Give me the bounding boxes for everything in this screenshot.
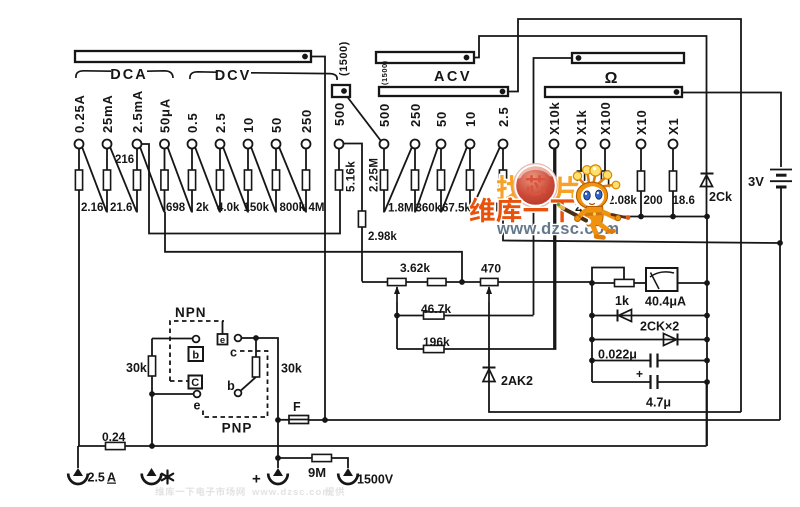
svg-text:2k: 2k: [196, 202, 209, 214]
svg-text:9M: 9M: [308, 465, 326, 480]
wire R 1.8M lower lead: [414, 190, 416, 213]
wire diagonal DCA 50uA to R 2k bottom: [168, 147, 192, 211]
svg-text:10: 10: [241, 117, 256, 133]
terminal 1500V: [343, 468, 353, 476]
switch contact ohm X100: [601, 140, 610, 149]
svg-text:196k: 196k: [423, 335, 450, 349]
svg-text:2Ck: 2Ck: [709, 190, 732, 204]
wire ohm upper bar left down to 46.7k row: [534, 58, 573, 315]
switch contact DCV 250: [302, 140, 311, 149]
svg-text:25mA: 25mA: [100, 94, 115, 133]
capacitor 4.7u electrolytic: [592, 381, 650, 383]
wire ACV 500 contact to resistor: [383, 148, 385, 170]
svg-text:500: 500: [377, 103, 392, 127]
label *: [162, 471, 173, 484]
svg-text:2AK2: 2AK2: [501, 374, 533, 388]
svg-text:Ω: Ω: [605, 70, 618, 87]
svg-text:ACV: ACV: [434, 69, 472, 85]
svg-text:470: 470: [481, 262, 501, 276]
wire meter row left junction: [589, 280, 595, 286]
switch contact DCV 500: [335, 140, 344, 149]
switch contact DCA 50uA: [160, 140, 169, 149]
wire + terminal riser: [277, 420, 279, 468]
wire ACV 10 contact to resistor: [469, 148, 471, 170]
DCV section bracket: [190, 72, 216, 79]
svg-text:3V: 3V: [748, 174, 764, 189]
wire diagonal DCA 25mA to R 216 bottom: [110, 147, 136, 211]
wire R 200 to ohm bus: [640, 191, 642, 217]
wire diagonal DCV 10 to R 800k bottom: [251, 147, 275, 211]
wire R 150k lower lead: [247, 190, 249, 213]
resistor R 21.6: [103, 170, 110, 190]
wire ACV 250 contact to resistor: [414, 148, 416, 170]
resistor R3.62k b: [428, 278, 447, 285]
wire PNP e node to fuse row: [256, 338, 278, 420]
wire contact DCA 25mA to resistor: [106, 148, 108, 170]
svg-text:PNP: PNP: [222, 421, 253, 436]
NPN socket dashed box: [170, 321, 224, 381]
resistor R 216: [133, 170, 140, 190]
svg-text:2.16: 2.16: [81, 202, 103, 214]
wire diagonal ACV 250 to R 2.25M bottom: [385, 147, 412, 211]
resistor R 800k: [272, 170, 279, 190]
svg-text:X1: X1: [666, 117, 681, 135]
wire ACV lower bar over top down to 2AK2 row: [508, 19, 741, 412]
resistor R 698: [161, 170, 168, 190]
wire 698 bottom node to 3.62k/470 junction: [165, 212, 462, 282]
resistor R 2.25M: [380, 170, 387, 190]
svg-text:30k: 30k: [126, 361, 147, 375]
resistor R196k: [424, 345, 445, 352]
svg-text:0.25A: 0.25A: [72, 94, 87, 133]
wire + node to fuse: [278, 419, 289, 421]
wire 500 contact to R5.16k: [338, 148, 340, 170]
wire diagonal DCV 50 to R 4M bottom: [279, 147, 305, 211]
terminal * common: [147, 468, 157, 476]
diode 2CK right-pointing: [592, 339, 707, 341]
resistor R0.24: [106, 442, 126, 449]
wire left rail down to * terminal bus: [151, 394, 153, 446]
adjust arrow at 470: [488, 287, 490, 302]
wire X1 contact to resistor: [672, 148, 674, 171]
svg-text:2.08k: 2.08k: [608, 195, 637, 207]
junction 3.62k/470: [459, 279, 465, 285]
wire R 18.6 to ohm bus: [672, 191, 674, 217]
wire R2.98k to 3.62k row: [361, 227, 363, 282]
switch contact ACV 50: [437, 140, 446, 149]
resistor R9M: [312, 454, 332, 461]
DCV 500V contact plate: [332, 85, 350, 97]
wire meter to right rail: [678, 282, 708, 284]
resistor R 16.5k: [499, 170, 506, 190]
wire 1k to meter: [634, 282, 646, 284]
svg-text:50: 50: [434, 111, 449, 127]
resistor R1k: [592, 282, 615, 284]
junction DCV bar rail on fuse row: [322, 417, 328, 423]
junction X1k resistor on ohm bus: [578, 214, 584, 220]
junction * rail on bus: [149, 443, 155, 449]
wire tap loop over 1k: [592, 268, 624, 284]
svg-text:5.16k: 5.16k: [346, 161, 358, 192]
junction ACV common / battery rail: [777, 240, 783, 246]
svg-text:2.25M: 2.25M: [369, 158, 381, 192]
wire R 67.5k lower lead: [469, 190, 471, 213]
junction meter row right rail: [704, 280, 710, 286]
wire R2.16 bottom down to bottom bus: [78, 213, 80, 447]
svg-text:30k: 30k: [281, 362, 302, 376]
contact dot in 500V plate: [341, 88, 347, 94]
svg-text:+: +: [636, 367, 643, 381]
switch contact DCA 25mA: [103, 140, 112, 149]
ACV selector bar lower: [379, 87, 508, 96]
svg-text:2.5mA: 2.5mA: [130, 90, 145, 133]
ohm selector bar lower: [545, 87, 682, 97]
svg-text:50μA: 50μA: [158, 98, 173, 133]
pin hole circle e bottom: [194, 391, 201, 398]
junction X10 resistor on ohm bus: [638, 214, 644, 220]
faint scanner watermark bottom: [155, 487, 164, 496]
wire bottom common bus 0.24: [78, 445, 707, 447]
junction diode row right rail: [704, 337, 710, 343]
junction 30k left / e pin: [149, 391, 155, 397]
svg-text:250: 250: [299, 109, 314, 133]
pin hole circle (PNP b): [235, 390, 242, 397]
switch contact DCV 2.5: [216, 140, 225, 149]
svg-text:3.62k: 3.62k: [400, 261, 430, 275]
svg-text:www.dzsc.com: www.dzsc.com: [251, 487, 332, 498]
svg-text:(1500): (1500): [338, 41, 350, 76]
wire R 2k lower lead: [191, 190, 193, 213]
wire R 2.25M lower lead: [383, 190, 385, 213]
contact dot in ohm lower bar: [674, 89, 680, 95]
svg-text:X1k: X1k: [574, 109, 589, 135]
contact dot in ACV lower bar: [500, 89, 506, 95]
wire R 2.08k to ohm bus: [604, 191, 606, 217]
wire contact DCV 50 to resistor: [275, 148, 277, 170]
contact dot in ACV upper bar: [464, 55, 470, 61]
svg-text:800k: 800k: [280, 202, 306, 214]
resistor R 1.8M: [411, 170, 418, 190]
DCA section bracket: [76, 71, 111, 78]
wire diagonal DCA 2.5mA to R 698 bottom: [140, 147, 164, 211]
wire 3.62k/470 row: [362, 281, 592, 283]
resistor R3.62k a: [388, 278, 407, 285]
wire R 4M lower lead: [305, 190, 307, 213]
svg-text:1500V: 1500V: [357, 473, 394, 487]
wire arrow node down to 196k row: [396, 302, 398, 349]
resistor R30k right: [255, 338, 257, 357]
resistor R30k left: [151, 339, 153, 357]
resistor R 360k: [437, 170, 444, 190]
svg-text:4.0k: 4.0k: [217, 202, 240, 214]
switch contact ACV 500: [380, 140, 389, 149]
9M row: [275, 455, 281, 461]
svg-text:40.4μA: 40.4μA: [645, 295, 686, 309]
wire 9M to 1500V terminal: [332, 458, 349, 468]
svg-text:698: 698: [166, 202, 186, 214]
wire meter block right rail (2Ck rail): [706, 217, 708, 447]
wire b pin to left rail: [152, 338, 193, 340]
wire X10 contact to resistor: [640, 148, 642, 171]
wire 2.5A terminal riser: [77, 446, 79, 468]
switch contact DCA 2.5mA: [133, 140, 142, 149]
meter M 40.4uA: [646, 268, 678, 291]
wire contact DCA 2.5mA to resistor: [136, 148, 138, 170]
wire contact DCA 50uA to resistor: [164, 148, 166, 170]
wire diagonal ACV 2.5 to R 67.5k bottom: [471, 147, 500, 211]
svg-text:4M: 4M: [309, 202, 325, 214]
svg-text:4.7μ: 4.7μ: [646, 396, 671, 410]
watermark: www.dzsc.com cartoon mascot and text: [470, 164, 631, 238]
svg-text:0.5: 0.5: [185, 113, 200, 133]
DCA/DCV selector bar: [75, 51, 311, 62]
svg-text:1.8M: 1.8M: [388, 203, 414, 215]
svg-text:2.5: 2.5: [496, 107, 511, 127]
wire fuse row right to battery rail: [309, 419, 781, 421]
switch contact ACV 10: [466, 140, 475, 149]
switch contact DCV 10: [244, 140, 253, 149]
svg-text:360k: 360k: [416, 203, 442, 215]
svg-text:21.6: 21.6: [110, 202, 132, 214]
svg-text:DCA: DCA: [110, 67, 147, 83]
wire contact DCA 0.25A to resistor: [78, 148, 80, 170]
wire R X1k to ohm bus: [580, 191, 582, 217]
ACV selector bar upper: [376, 52, 474, 63]
wire X10k contact down to 196k row: [553, 148, 555, 349]
wire R 360k lower lead: [440, 190, 442, 213]
resistor R X1k: [577, 171, 584, 191]
switch contact ohm X1k: [577, 140, 586, 149]
wire 30k right to b pin: [241, 377, 257, 391]
wire meter block left rail: [591, 283, 593, 382]
wire ohm common bus: [581, 216, 707, 218]
wire R 2.16 lower lead: [78, 190, 80, 213]
svg-text:2.5: 2.5: [88, 471, 105, 485]
wire ACV 50 contact to resistor: [440, 148, 442, 170]
svg-text:c: c: [230, 346, 237, 360]
wire ACV upper bar over top to 2Ck diode: [474, 36, 707, 168]
svg-text:0.24: 0.24: [102, 430, 126, 444]
wire contact DCV 0.5 to resistor: [191, 148, 193, 170]
switch contact ohm X10k: [550, 140, 559, 149]
svg-text:10: 10: [463, 111, 478, 127]
svg-text:X100: X100: [598, 101, 613, 135]
svg-text:A: A: [107, 471, 116, 485]
adjust arrow at 3.62k: [396, 287, 398, 302]
svg-text:1k: 1k: [615, 294, 629, 308]
resistor R46.7k: [424, 312, 445, 319]
PNP socket dashed box: [203, 351, 268, 417]
svg-text:+: +: [252, 471, 261, 488]
svg-text:2CK×2: 2CK×2: [640, 320, 679, 334]
junction fuse row / PNP rail: [275, 417, 281, 423]
wire diagonal DCA 0.25A to R 21.6 bottom: [82, 147, 106, 211]
svg-text:150k: 150k: [244, 202, 270, 214]
terminal 2.5A: [73, 468, 83, 476]
wire diagonal ACV 50 to R 1.8M bottom: [416, 147, 438, 211]
wire DCA/DCV bar right end down to fuse row: [311, 57, 325, 421]
wire PNP e pin right: [241, 337, 256, 339]
socket square b: [189, 347, 204, 361]
wire ACV common: R16.5k bottom down and right to battery rail: [503, 190, 780, 243]
svg-text:200: 200: [644, 195, 663, 207]
svg-text:DCV: DCV: [215, 68, 252, 84]
svg-text:F: F: [293, 400, 301, 414]
svg-text:(1500): (1500): [380, 60, 389, 85]
junction PNP e node: [253, 335, 259, 341]
svg-text:46.7k: 46.7k: [421, 302, 451, 316]
svg-text:b: b: [192, 350, 199, 362]
contact dot in ohm upper bar: [576, 55, 582, 61]
wire R 21.6 lower lead: [106, 190, 108, 213]
junction X100 resistor on ohm bus: [602, 214, 608, 220]
ohm selector bar upper: [572, 53, 684, 63]
wire R 698 lower lead: [164, 190, 166, 213]
svg-text:2.98k: 2.98k: [368, 231, 397, 243]
wire X1k contact to resistor: [580, 148, 582, 171]
svg-text:X10k: X10k: [547, 101, 562, 135]
wire 500V plate diagonal to ACV 500 contact: [347, 97, 381, 142]
switch contact ohm X10: [637, 140, 646, 149]
switch contact ACV 250: [411, 140, 420, 149]
wire battery - down to common dot: [780, 187, 782, 243]
svg-text:0.022μ: 0.022μ: [598, 348, 637, 362]
junction 2CK row right rail: [704, 313, 710, 319]
wire 2Ck to ohm bus: [706, 168, 708, 217]
junction ohm bus / 2Ck rail: [704, 214, 710, 220]
resistor R470: [481, 278, 499, 285]
switch contact DCV 0.5: [188, 140, 197, 149]
wire 196k row: [397, 148, 556, 349]
svg-text:e: e: [194, 399, 201, 413]
resistor R 2.08k: [601, 171, 608, 191]
wire R 800k lower lead: [275, 190, 277, 213]
wire diagonal DCV 0.5 to R 4.0k bottom: [195, 147, 219, 211]
svg-text:e: e: [220, 335, 225, 346]
diode 2CK left-pointing: [592, 315, 707, 317]
wire ACV 2.5 contact to resistor: [502, 148, 504, 170]
svg-text:250: 250: [408, 103, 423, 127]
wire e pin to left rail: [152, 393, 194, 395]
resistor R 67.5k: [466, 170, 473, 190]
wire battery rail down to fuse row: [779, 243, 781, 420]
battery 3V: [770, 169, 792, 171]
wire diagonal ACV 10 to R 360k bottom: [442, 147, 467, 211]
wire arrow node down to 2AK2: [488, 302, 490, 382]
svg-text:X10: X10: [634, 109, 649, 135]
wire e square to NPN box top: [222, 321, 224, 334]
junction X1 resistor on ohm bus: [670, 214, 676, 220]
terminal +: [273, 468, 283, 476]
svg-text:C: C: [191, 377, 199, 389]
wire diagonal DCV 2.5 to R 150k bottom: [223, 147, 247, 211]
svg-text:NPN: NPN: [175, 305, 207, 320]
wire X100 contact to resistor: [604, 148, 606, 171]
resistor R2.98k: [358, 211, 365, 227]
wire contact DCV 10 to resistor: [247, 148, 249, 170]
svg-text:67.5k: 67.5k: [442, 203, 471, 215]
wire R 216 lower lead: [136, 190, 138, 213]
switch contact ACV 2.5: [499, 140, 508, 149]
wire 2.5mA contact to R5.16k bottom: [141, 144, 340, 234]
svg-text:216: 216: [115, 154, 134, 166]
wire 2AK2 bottom to right riser: [489, 382, 741, 413]
wire 500 contact right to R2.98k: [343, 144, 362, 212]
pin hole circle (PNP e): [235, 335, 242, 342]
wire R 4.0k lower lead: [219, 190, 221, 213]
resistor R 150k: [244, 170, 251, 190]
wire contact DCV 250 to resistor: [305, 148, 307, 170]
wire ohm lower bar right to battery +: [682, 93, 781, 168]
pin hole circle (NPN b wire): [193, 336, 200, 343]
wire contact DCV 2.5 to resistor: [219, 148, 221, 170]
svg-text:50: 50: [269, 117, 284, 133]
switch contact DCV 50: [272, 140, 281, 149]
resistor R 4M: [302, 170, 309, 190]
svg-text:2.5: 2.5: [213, 113, 228, 133]
svg-text:b: b: [227, 379, 235, 393]
switch contact DCA 0.25A: [75, 140, 84, 149]
resistor R 18.6: [669, 171, 676, 191]
svg-text:18.6: 18.6: [673, 195, 695, 207]
contact dot in DCA/DCV bar: [302, 54, 308, 60]
wire bus corner up to meter rail: [706, 382, 708, 446]
resistor R5.16k: [335, 170, 342, 190]
svg-text:500: 500: [332, 102, 347, 126]
resistor R 4.0k: [216, 170, 223, 190]
junction 46.7k row: [394, 313, 400, 319]
wire 46.7k row: [397, 315, 534, 317]
resistor R 2k: [188, 170, 195, 190]
socket square C: [189, 376, 203, 389]
resistor R 2.16: [75, 170, 82, 190]
resistor R 200: [637, 171, 644, 191]
capacitor 0.022u: [592, 360, 650, 362]
switch contact ohm X1: [669, 140, 678, 149]
